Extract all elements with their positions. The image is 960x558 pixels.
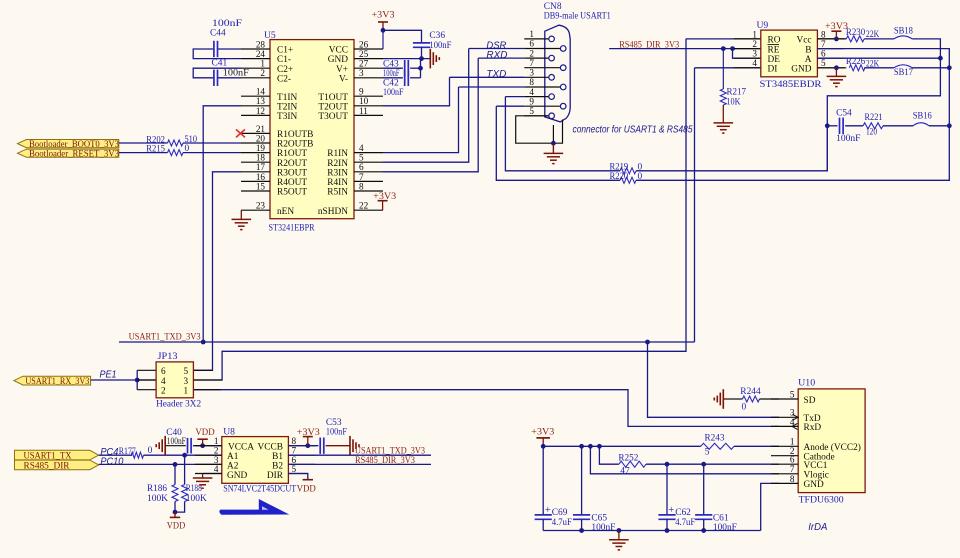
- svg-text:TFDU6300: TFDU6300: [799, 494, 844, 505]
- wire B vertical down: [948, 68, 950, 126]
- node junction RE-DE tie: [730, 46, 735, 51]
- svg-text:C43: C43: [383, 59, 399, 69]
- node junction GND/C36: [419, 56, 424, 61]
- svg-text:GND: GND: [328, 55, 348, 65]
- svg-text:nEN: nEN: [277, 207, 294, 217]
- capacitor C69 polarized: [535, 514, 552, 516]
- wire C69 to bottom rail: [542, 519, 544, 530]
- svg-text:22: 22: [359, 201, 369, 211]
- svg-text:7: 7: [529, 58, 534, 68]
- resistor R215: [168, 150, 184, 156]
- svg-text:21: 21: [256, 124, 266, 134]
- wire bottom ground rail: [543, 530, 761, 532]
- svg-text:Bootloader_RESET_3V3: Bootloader_RESET_3V3: [29, 150, 119, 160]
- wire gnd to R244: [727, 398, 743, 400]
- wire C41 loop pin1 to pin2: [193, 68, 241, 78]
- wire DB9 pin8 vertical to U5 R1IN: [383, 87, 459, 153]
- wire C43 right to vertical: [410, 67, 420, 69]
- wire TXD vertical to U5 T2OUT: [383, 77, 450, 106]
- U5 pin 13 T2IN: [241, 105, 270, 107]
- wire DB9 pin9 down to R220 row: [496, 106, 620, 180]
- svg-text:RE: RE: [768, 45, 780, 55]
- svg-text:RxD: RxD: [804, 423, 822, 433]
- wire U8 pin8 VCCB to +3V3 and C53: [288, 445, 318, 447]
- wire C53 to rotated ground: [326, 445, 350, 447]
- node junction TXD/T2IN: [201, 340, 206, 345]
- svg-text:CN8: CN8: [544, 2, 562, 12]
- svg-text:4: 4: [214, 464, 219, 474]
- svg-text:4: 4: [752, 58, 757, 68]
- svg-text:C2+: C2+: [277, 65, 293, 75]
- svg-text:Vlogic: Vlogic: [804, 471, 829, 481]
- svg-text:7: 7: [359, 172, 364, 182]
- svg-text:+3V3: +3V3: [531, 427, 554, 437]
- power +3V3 at U9 pin 8: [835, 31, 837, 39]
- svg-text:TXD: TXD: [486, 69, 506, 80]
- svg-text:3: 3: [359, 68, 364, 78]
- node junction C43/vertical: [418, 66, 423, 71]
- svg-text:VDD: VDD: [195, 428, 214, 438]
- svg-text:SN74LVC2T45DCUT: SN74LVC2T45DCUT: [223, 483, 296, 494]
- wire +3V3 to C36: [383, 30, 422, 43]
- node junction GND pin5: [834, 65, 839, 70]
- U10 pin 8 GND: [771, 482, 798, 484]
- wire R230 to SB18: [864, 38, 894, 40]
- node junction SB16 B net: [947, 123, 952, 128]
- wire DB9 pin5 shell loop to ground: [516, 116, 563, 143]
- svg-text:C2-: C2-: [277, 74, 291, 84]
- U10 pin 4 RxD: [771, 425, 798, 427]
- node junction rail C65: [579, 444, 584, 449]
- svg-text:12: 12: [256, 106, 266, 116]
- wire DB9 pin8: [459, 86, 525, 88]
- wire C61 to bottom rail: [703, 519, 705, 530]
- svg-text:+: +: [545, 505, 551, 516]
- svg-text:ST3241EBPR: ST3241EBPR: [269, 223, 315, 234]
- svg-text:13: 13: [256, 96, 266, 106]
- U5 pin 19 R1OUT: [241, 152, 270, 154]
- svg-text:8: 8: [359, 181, 364, 191]
- svg-text:T2OUT: T2OUT: [318, 102, 348, 112]
- U5 pin 15 R5OUT: [241, 190, 270, 192]
- svg-text:GND: GND: [804, 480, 824, 490]
- svg-text:23: 23: [256, 201, 266, 211]
- wire U8 pin7 B1 net: [288, 454, 431, 456]
- svg-text:B: B: [805, 45, 811, 55]
- svg-text:11: 11: [359, 106, 368, 116]
- U10 TxD pin input arrow: [793, 414, 799, 420]
- CN8 pin 4: [524, 96, 549, 98]
- svg-text:10K: 10K: [727, 97, 741, 107]
- connector CN8 DB9 body: [545, 25, 570, 122]
- svg-text:R230: R230: [846, 28, 866, 38]
- CN8 pin 3: [524, 76, 549, 78]
- svg-text:5: 5: [529, 106, 534, 116]
- svg-text:4: 4: [529, 87, 534, 97]
- svg-text:R219: R219: [610, 162, 629, 172]
- svg-text:+3V3: +3V3: [825, 22, 848, 32]
- svg-text:16: 16: [256, 172, 266, 182]
- svg-text:R5IN: R5IN: [327, 188, 348, 198]
- svg-text:5: 5: [821, 58, 826, 68]
- resistor R177: [131, 452, 143, 458]
- svg-text:5: 5: [292, 464, 297, 474]
- svg-text:120: 120: [866, 128, 877, 138]
- wire U9 pin5 GND: [817, 67, 846, 69]
- power +3V3 above U8 pin 8: [307, 437, 309, 446]
- svg-text:IrDA: IrDA: [808, 522, 827, 533]
- ground rotated right of U5 pin 25: [429, 49, 431, 69]
- svg-text:R2OUT: R2OUT: [277, 159, 307, 169]
- svg-text:27: 27: [359, 59, 369, 69]
- U5 pin 28 C1+: [241, 48, 270, 50]
- svg-text:A: A: [805, 55, 812, 65]
- capacitor C53: [319, 438, 321, 454]
- IrDA transceiver U10 TFDU6300 body: [798, 389, 865, 493]
- U5 pin 17 R3OUT: [241, 171, 270, 173]
- U5 pin 25 GND: [354, 58, 383, 60]
- svg-text:VDD: VDD: [297, 484, 316, 494]
- resistor R217 10K: [720, 89, 726, 105]
- op-amp U5 ST3241EBPR body: [270, 40, 354, 219]
- U5 pin 3 V-: [354, 77, 383, 79]
- wire C61 vertical: [703, 464, 705, 514]
- wire USART1_TXD_3V3 row: [119, 341, 695, 343]
- svg-text:T1IN: T1IN: [277, 93, 297, 103]
- wire U5 pin27 V+ to C43: [383, 67, 403, 69]
- svg-text:T3IN: T3IN: [277, 112, 297, 122]
- svg-text:18: 18: [256, 153, 266, 163]
- svg-text:5: 5: [790, 389, 795, 399]
- svg-text:C61: C61: [713, 513, 729, 523]
- svg-text:100K: 100K: [147, 494, 168, 504]
- resistor R221 120: [863, 123, 883, 129]
- svg-text:5: 5: [359, 153, 364, 163]
- svg-text:Bootloader_BOOT0_3V3: Bootloader_BOOT0_3V3: [29, 140, 119, 150]
- svg-text:GND: GND: [791, 65, 811, 75]
- node junction VDD bottom: [173, 510, 178, 515]
- svg-text:6: 6: [821, 49, 826, 59]
- svg-text:ST3485EBDR: ST3485EBDR: [760, 79, 823, 90]
- JP13 right pin stubs: [193, 369, 212, 371]
- svg-text:100nF: 100nF: [713, 523, 737, 533]
- svg-text:R4IN: R4IN: [327, 178, 348, 188]
- resistor R252 47: [619, 461, 646, 467]
- svg-text:3: 3: [184, 376, 189, 386]
- wire U5 pin3 V- to C42: [383, 77, 403, 79]
- wire R217 top: [722, 49, 724, 89]
- svg-text:4: 4: [359, 143, 364, 153]
- node junction VCC1 C61: [701, 462, 706, 467]
- wire U9 pin8 Vcc: [817, 38, 846, 40]
- ground at U5 pin 23 nEN: [240, 210, 242, 219]
- wire JP13 pin1 to U10 RxD: [193, 390, 779, 427]
- wire R217 to ground: [722, 105, 724, 123]
- svg-text:8: 8: [292, 436, 297, 446]
- svg-text:R3OUT: R3OUT: [277, 168, 307, 178]
- wire USART1_TX to R177: [99, 454, 133, 456]
- node junction rail ground stem: [617, 528, 622, 533]
- wire C65 to bottom rail: [581, 519, 583, 530]
- wire DSR vertical to U5 R2IN: [383, 49, 469, 163]
- wire JP13 pin4 stub: [137, 379, 156, 381]
- svg-text:R1OUTB: R1OUTB: [277, 130, 313, 140]
- svg-text:100nF: 100nF: [836, 134, 860, 144]
- capacitor C62 polarized: [658, 514, 675, 516]
- svg-text:+3V3: +3V3: [297, 428, 320, 438]
- svg-text:DIR: DIR: [267, 471, 284, 481]
- wire C54 to R221: [845, 125, 863, 127]
- power VDD above U8 pin 1: [202, 439, 204, 446]
- ground below CN8: [552, 143, 554, 153]
- CN8 pin 8: [524, 86, 560, 88]
- wire RE to DE tie: [733, 49, 761, 59]
- svg-text:R215: R215: [146, 144, 165, 154]
- graphic blue arrow: [219, 499, 289, 515]
- svg-text:C44: C44: [210, 29, 226, 39]
- svg-text:8: 8: [790, 474, 795, 484]
- svg-text:U9: U9: [757, 20, 769, 31]
- U10 pin 1 Anode (VCC2): [771, 445, 798, 447]
- svg-text:R188: R188: [186, 484, 202, 494]
- svg-text:V+: V+: [336, 65, 348, 75]
- transceiver U9 ST3485EBDR body: [761, 30, 818, 77]
- svg-text:JP13: JP13: [158, 352, 178, 362]
- svg-text:1: 1: [260, 59, 265, 69]
- power +3V3 at U5 pin 22 nSHDN: [382, 201, 384, 211]
- svg-text:100K: 100K: [186, 494, 207, 504]
- node junction rail C62 bottom: [665, 528, 670, 533]
- svg-text:100nF: 100nF: [591, 523, 615, 533]
- svg-text:C62: C62: [675, 508, 691, 518]
- node junction VCC1 C62: [665, 462, 670, 467]
- svg-text:U8: U8: [223, 426, 235, 437]
- svg-text:VCC: VCC: [329, 46, 348, 56]
- resistor R230 22K: [846, 36, 864, 42]
- svg-text:R177: R177: [119, 447, 136, 457]
- svg-text:1: 1: [529, 29, 534, 39]
- wire RS485_DIR_3V3 to U9 RE: [609, 48, 761, 50]
- U5 pin 24 C1-: [241, 58, 270, 60]
- U5 pin 6 R3IN: [354, 171, 383, 173]
- svg-text:VDD: VDD: [167, 522, 186, 532]
- wire resistors to VDD bottom: [175, 502, 185, 513]
- wire vertical GND to C42: [420, 59, 422, 78]
- wire +3V3 rail: [543, 445, 701, 447]
- svg-text:RXD: RXD: [486, 50, 507, 61]
- svg-text:26: 26: [359, 39, 369, 49]
- wire Vlogic branch: [590, 446, 779, 474]
- wire C44 loop pin28 to pin24: [218, 48, 242, 50]
- ground below U9 pin 5: [835, 68, 837, 77]
- U9 pin stubs: [734, 38, 761, 40]
- svg-text:R2IN: R2IN: [327, 159, 348, 169]
- wire DB9 pin9: [496, 105, 524, 107]
- svg-text:R4OUT: R4OUT: [277, 178, 307, 188]
- wire R252 to U10 VCC1: [646, 463, 779, 465]
- svg-text:R221: R221: [865, 113, 883, 123]
- node junction A2/R186: [173, 462, 178, 467]
- wire C40 to U8 pin1: [193, 445, 222, 447]
- svg-text:24: 24: [256, 49, 266, 59]
- wire RXD DB9 pin2: [478, 57, 524, 59]
- svg-text:+3V3: +3V3: [372, 11, 395, 21]
- port flag USART1_RX_3V3: [14, 376, 91, 385]
- wire RESET to R215: [119, 152, 168, 154]
- wire R177 to U8 A1: [144, 454, 222, 456]
- capacitor C40: [187, 438, 189, 454]
- node junction PE1 jumper common: [135, 378, 140, 383]
- svg-text:100nF: 100nF: [167, 436, 186, 446]
- svg-text:100nF: 100nF: [429, 41, 451, 51]
- wire DI from TXD3V3 vertical: [695, 67, 761, 69]
- U5 pin 14 T1IN: [241, 95, 270, 97]
- svg-text:PE1: PE1: [100, 369, 117, 380]
- node junction rail C65 bottom: [579, 528, 584, 533]
- svg-text:Vcc: Vcc: [796, 36, 811, 46]
- wire U9 pin7 B to right: [817, 49, 949, 68]
- wire gnd to C40: [165, 445, 186, 447]
- power VDD below resistors: [174, 512, 176, 517]
- wire U8 pin5 DIR to VDD: [288, 474, 307, 480]
- svg-text:VCC1: VCC1: [804, 461, 828, 471]
- CN8 pin 9: [524, 105, 560, 107]
- resistor R243 5: [701, 443, 734, 449]
- svg-text:C69: C69: [552, 508, 568, 518]
- resistor R220: [620, 177, 636, 183]
- wire TXD_3V3 down to U10 TxD: [648, 342, 780, 417]
- svg-text:1: 1: [752, 29, 757, 39]
- U5 pin 2 C2-: [241, 77, 270, 79]
- svg-text:PC10: PC10: [100, 457, 124, 468]
- svg-text:3: 3: [752, 49, 757, 59]
- U10 pin 7 Vlogic: [771, 473, 798, 475]
- node junction Vcc +3V3: [834, 37, 839, 42]
- CN8 pin 1: [524, 38, 549, 40]
- wire C69 vertical: [542, 446, 544, 514]
- svg-text:GND: GND: [227, 471, 247, 481]
- svg-text:2: 2: [260, 68, 265, 78]
- svg-text:USART1_TXD_3V3: USART1_TXD_3V3: [129, 332, 201, 342]
- wire U5 T2IN vertical: [203, 106, 241, 342]
- svg-text:17: 17: [256, 162, 266, 172]
- node junction R217: [721, 46, 726, 51]
- U5 pin 11 T3OUT: [354, 114, 383, 116]
- svg-text:T2IN: T2IN: [277, 102, 297, 112]
- svg-text:R5OUT: R5OUT: [277, 188, 307, 198]
- capacitor C42: [404, 70, 406, 86]
- capacitor C65: [573, 514, 590, 516]
- wire DB9 pin4: [505, 96, 524, 98]
- svg-text:2: 2: [161, 385, 166, 395]
- wire R202 to U5 pin 20: [183, 142, 241, 144]
- U5 pin 5 R2IN: [354, 161, 383, 163]
- svg-text:4.7uF: 4.7uF: [675, 518, 695, 528]
- wire PE1 to JP13: [91, 379, 157, 381]
- svg-text:28: 28: [256, 39, 266, 49]
- svg-text:7: 7: [790, 464, 795, 474]
- node junction rail C69: [541, 444, 546, 449]
- svg-text:R244: R244: [740, 387, 761, 397]
- wire RO to jumper vertical: [686, 38, 761, 40]
- svg-text:SB17: SB17: [894, 68, 913, 78]
- svg-text:+3V3: +3V3: [373, 192, 396, 202]
- U5 pin 21 R1OUTB: [241, 132, 270, 134]
- svg-text:R2OUTB: R2OUTB: [277, 140, 313, 150]
- wire C36 bottom to GND rail: [421, 47, 423, 58]
- wire VCC1 branch: [599, 446, 619, 464]
- power VDD below U8 DIR: [303, 479, 313, 481]
- svg-text:100nF: 100nF: [223, 68, 249, 78]
- U5 pin 12 T3IN: [241, 114, 270, 116]
- port flag USART1_TX: [15, 450, 99, 460]
- svg-text:R1OUT: R1OUT: [277, 149, 307, 159]
- wire JP13 pin6 stub: [137, 369, 156, 371]
- node junction A1/R188: [182, 453, 187, 458]
- U10 pin 5 SD: [771, 398, 798, 400]
- svg-text:U10: U10: [798, 378, 815, 389]
- svg-text:+: +: [668, 505, 674, 516]
- svg-text:5: 5: [184, 366, 189, 376]
- svg-text:DE: DE: [768, 55, 781, 65]
- wire TXD DB9 pin3: [450, 76, 525, 78]
- svg-text:SB18: SB18: [894, 26, 913, 36]
- wire JP13 pin2 stub: [137, 389, 156, 391]
- resistor R219: [620, 168, 636, 174]
- wire U5 pin25 GND to earth: [383, 58, 430, 60]
- svg-text:C1+: C1+: [277, 46, 293, 56]
- wire R221 to SB16: [883, 125, 913, 127]
- svg-text:C1-: C1-: [277, 55, 291, 65]
- wire DB9 shell stub: [552, 125, 554, 143]
- U10 pin 2 Cathode: [771, 455, 798, 457]
- CN8 pin 7: [524, 67, 560, 69]
- port flag Bootloader_BOOT0_3V3: [18, 140, 119, 148]
- svg-text:RS485_DIR: RS485_DIR: [24, 461, 71, 471]
- svg-text:C65: C65: [591, 513, 607, 523]
- svg-text:C41: C41: [212, 59, 228, 69]
- port flag Bootloader_RESET_3V3: [18, 149, 119, 157]
- U5 pin 23 nEN: [241, 209, 270, 211]
- wire RS485_DIR to U8 A2: [99, 463, 222, 465]
- U5 pin 27 V+: [354, 67, 383, 69]
- wire A vertical to R219 row: [826, 126, 828, 171]
- ground rotated left of C40: [164, 436, 166, 456]
- svg-text:14: 14: [256, 87, 266, 97]
- wire A to C54: [827, 125, 837, 127]
- node junction TXD to IrDA branch: [645, 340, 650, 345]
- wire C42 right plate to vertical: [410, 77, 420, 79]
- U5 pin 1 C2+: [241, 67, 270, 69]
- svg-text:1: 1: [214, 436, 219, 446]
- solder bridge SB16: [913, 123, 929, 126]
- capacitor C36: [413, 42, 430, 44]
- svg-text:2: 2: [752, 39, 757, 49]
- wire U5 R3OUT vertical to JP13 pin5: [193, 172, 241, 370]
- capacitor C43: [404, 60, 406, 76]
- wire R220 to B-net vertical: [636, 126, 949, 181]
- U10 pin 3 TxD: [771, 416, 798, 418]
- svg-text:Anode (VCC2): Anode (VCC2): [804, 442, 861, 453]
- svg-text:RS485_DIR_3V3: RS485_DIR_3V3: [355, 456, 415, 466]
- U5 pin 20 R2OUTB: [241, 142, 270, 144]
- resistor R202: [168, 140, 184, 146]
- resistor R186 100K: [174, 464, 176, 484]
- node junction DB9 ground: [551, 141, 556, 146]
- CN8 pin 5: [524, 115, 549, 117]
- svg-text:T3OUT: T3OUT: [318, 112, 348, 122]
- U5 pin 16 R4OUT: [241, 180, 270, 182]
